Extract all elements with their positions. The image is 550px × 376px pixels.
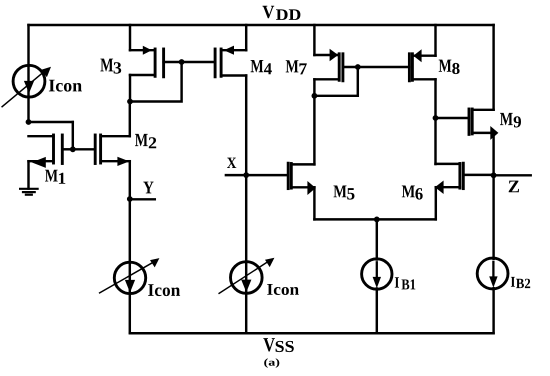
current source Icon2 circle xyxy=(114,262,145,293)
wire M7 gate to M8 gate xyxy=(343,66,410,68)
label M2 M xyxy=(135,134,148,146)
transistor M4 xyxy=(214,49,217,77)
wire Y column down xyxy=(129,199,131,333)
ground xyxy=(20,188,37,190)
label VDD DD xyxy=(276,9,300,20)
label M9 M xyxy=(500,113,513,125)
label M3 3 xyxy=(114,62,122,73)
label Icon top-left xyxy=(49,80,82,92)
transistor M7 xyxy=(338,54,341,81)
label (a) xyxy=(264,358,279,367)
label M8 M xyxy=(439,60,452,72)
wire left rail xyxy=(27,25,29,122)
transistor M3 xyxy=(154,49,157,76)
label M8 8 xyxy=(452,63,459,74)
wire M1 gate to M2 gate xyxy=(73,148,95,150)
label M7 M xyxy=(286,60,299,72)
label Y xyxy=(143,182,153,194)
label VDD V xyxy=(263,6,275,18)
wire M7 source vertical xyxy=(313,25,315,55)
label M1 1 xyxy=(59,173,65,184)
wire common source xyxy=(314,218,435,220)
wire M8 drain down to M6 xyxy=(434,79,436,164)
node M7 drain xyxy=(312,93,318,99)
node M3 gate wire xyxy=(179,59,185,65)
label M4 M xyxy=(251,60,264,72)
label Icon bottom-left xyxy=(148,284,180,296)
wire node to gate column xyxy=(29,121,73,123)
label M6 6 xyxy=(415,188,422,200)
wire X to M5 gate xyxy=(246,174,288,176)
transistor M6 xyxy=(458,164,461,189)
wire X column down xyxy=(245,175,247,333)
wire Y stub xyxy=(130,198,155,200)
label M2 2 xyxy=(149,137,156,148)
wire M4 drain down to X xyxy=(245,76,247,176)
label M3 M xyxy=(100,59,113,72)
wire X stub xyxy=(226,174,246,176)
wire M6 gate to Z xyxy=(463,174,493,176)
label X xyxy=(227,158,236,168)
current source Icon3 variability diagonal arrow xyxy=(219,261,268,293)
transistor M2 xyxy=(94,135,97,164)
label M5 5 xyxy=(347,188,354,200)
VSS rail xyxy=(130,332,494,335)
node M8 drain xyxy=(433,115,439,121)
wire M8 source to rail xyxy=(434,25,436,56)
node A (Icon1/M1 drain/gate node) xyxy=(26,119,32,125)
wire gate column down xyxy=(72,122,74,149)
current source IB1 circle xyxy=(362,259,392,289)
current source IB2 arrow xyxy=(492,262,494,279)
label IB1 I xyxy=(395,277,399,287)
wire M7 diode connection xyxy=(314,67,357,96)
node M1 gate junction xyxy=(70,146,76,152)
wire M9 source down to Z xyxy=(492,133,494,175)
wire M8 drain to M9 gate xyxy=(436,117,470,119)
node M7 gate wire xyxy=(355,64,361,70)
wire Z column down xyxy=(492,175,494,258)
label IB1 B1 xyxy=(402,279,416,289)
transistor M1 xyxy=(52,135,55,163)
wire M3 diode connection xyxy=(130,62,182,102)
current source Icon1 arrow xyxy=(24,81,34,93)
wire IB1 column xyxy=(376,219,378,259)
label Icon bottom-middle xyxy=(267,284,299,295)
label M1 M xyxy=(45,170,58,182)
wire M9 drain to rail xyxy=(492,25,494,110)
wire M3 source vertical xyxy=(129,25,131,50)
arrow M9 source xyxy=(490,126,498,140)
wire M3 drain down xyxy=(129,75,131,102)
label M4 4 xyxy=(264,63,272,74)
wire M2 drain up xyxy=(129,102,131,137)
current source Icon1 variability diagonal arrow xyxy=(2,71,44,106)
current source IB1 arrow xyxy=(376,262,378,279)
current source Icon2 arrow xyxy=(125,280,135,293)
node Z xyxy=(491,172,497,178)
VDD rail xyxy=(29,24,494,27)
current source IB2 circle xyxy=(477,258,508,289)
wire M3 gate to M4 gate xyxy=(164,61,216,63)
wire M6 source down xyxy=(435,187,437,219)
current source Icon3 circle xyxy=(231,262,263,294)
wire M7 drain down to M5 xyxy=(313,79,315,164)
wire M5 source down xyxy=(313,187,315,219)
wire M2 source down to Y xyxy=(129,161,131,199)
wire M4 source to rail xyxy=(245,25,247,50)
node Y xyxy=(127,196,133,202)
current source Icon3 arrow xyxy=(241,280,251,293)
current source Icon2 variability diagonal arrow xyxy=(100,262,154,293)
transistor M9 xyxy=(468,109,471,134)
label M7 7 xyxy=(299,63,306,74)
label VSS SS xyxy=(276,341,294,352)
transistor M8 xyxy=(408,54,411,81)
label M9 9 xyxy=(514,116,521,127)
wire M1 source to ground xyxy=(27,161,29,188)
wire Z stub xyxy=(494,174,531,176)
node X xyxy=(243,172,249,178)
label IB2 I xyxy=(511,277,515,287)
current source Icon1 circle xyxy=(13,65,45,97)
node common source xyxy=(374,217,380,223)
label Z xyxy=(509,181,519,193)
transistor M5 xyxy=(287,163,290,188)
node M3 drain / M2 drain xyxy=(127,99,133,105)
label IB2 B2 xyxy=(516,279,530,288)
label M5 M xyxy=(334,186,347,198)
label M6 M xyxy=(402,186,415,198)
label VSS V xyxy=(263,338,275,351)
